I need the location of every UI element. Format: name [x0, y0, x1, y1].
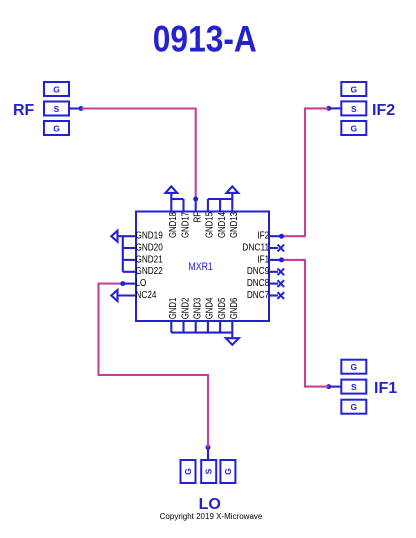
wire RF pad stub [69, 107, 81, 109]
wire DNC11 pin stub [269, 247, 278, 249]
wire GND20 pin stub [123, 247, 136, 249]
no-connect X DNC9 [278, 268, 285, 275]
svg-text:DNC8: DNC8 [247, 278, 270, 289]
svg-text:GND6: GND6 [229, 297, 240, 319]
pad G3 [341, 121, 366, 135]
pad S2 LO [201, 460, 216, 483]
port RF pads G-S-G [44, 82, 69, 135]
wire DNC9 pin stub [269, 271, 278, 273]
svg-text:G: G [53, 84, 60, 94]
svg-text:GND3: GND3 [193, 297, 204, 319]
svg-text:GND15: GND15 [205, 212, 216, 238]
svg-text:GND21: GND21 [136, 254, 164, 265]
wire LO pad stub [207, 447, 209, 460]
svg-text:G: G [350, 402, 357, 412]
wire GND21 pin stub [123, 259, 136, 261]
ground arrow bottom [226, 338, 239, 345]
wire bottom GND bus [171, 332, 232, 334]
svg-text:GND17: GND17 [180, 212, 191, 238]
port IF2 pads G-S-G [341, 82, 366, 135]
wire IF1 pin stub [269, 259, 282, 261]
wire IF2 net [282, 108, 329, 236]
port IF1 pads G-S-G [341, 360, 366, 414]
wire to bottom arrow [231, 333, 233, 339]
svg-text:GND14: GND14 [217, 212, 228, 238]
wire RF net [81, 109, 196, 200]
wire GND1 pin stub [170, 321, 172, 333]
pad S2 [341, 380, 366, 394]
port LO pads G-S-G [181, 460, 236, 483]
svg-text:DNC9: DNC9 [247, 266, 270, 277]
svg-text:MXR1: MXR1 [188, 261, 212, 273]
svg-text:IF1: IF1 [257, 254, 269, 265]
svg-text:Copyright 2019 X-Microwave: Copyright 2019 X-Microwave [160, 512, 263, 521]
svg-text:S: S [54, 104, 60, 114]
wire LO pin stub [123, 283, 136, 285]
junction IF2 pin [279, 234, 284, 239]
wire LO net [99, 284, 209, 448]
mixer U MXR1 body [136, 212, 269, 322]
wire DNC7 pin stub [269, 294, 278, 296]
wire top-right GND bus [208, 198, 232, 200]
no-connect X DNC11 [278, 245, 285, 252]
junction IF1 port [326, 384, 331, 389]
pad S2 [44, 102, 69, 116]
junction IF2 port [326, 106, 331, 111]
wire NC24 pin stub [118, 294, 137, 296]
wire RF pin stub [195, 199, 197, 212]
svg-text:LO: LO [199, 496, 221, 513]
wire IF2 pad stub [329, 107, 342, 109]
power arrow top-left [165, 186, 177, 193]
junction RF pin [193, 197, 198, 202]
svg-text:RF: RF [13, 102, 35, 119]
pad G1 [341, 82, 366, 96]
pad G3 LO [220, 460, 235, 483]
wire IF1 net [282, 260, 329, 387]
svg-text:GND13: GND13 [229, 212, 240, 238]
svg-text:DNC11: DNC11 [242, 242, 269, 253]
power arrow NC24 (left) [111, 290, 117, 301]
wire DNC8 pin stub [269, 283, 278, 285]
wire GND14 pin stub [219, 199, 221, 212]
wire GND17 pin stub [182, 199, 184, 212]
svg-text:G: G [53, 123, 60, 133]
wire IF1 pad stub [329, 386, 342, 388]
svg-text:G: G [350, 84, 357, 94]
svg-text:IF1: IF1 [374, 380, 397, 397]
no-connect X DNC7 [278, 292, 285, 299]
power arrow GND19 (left) [111, 231, 117, 242]
svg-text:IF2: IF2 [372, 102, 395, 119]
junction LO port [206, 445, 211, 450]
svg-text:G: G [350, 362, 357, 372]
svg-text:LO: LO [136, 278, 147, 289]
svg-text:NC24: NC24 [136, 290, 157, 301]
svg-text:S: S [351, 382, 357, 392]
wire GND5 pin stub [219, 321, 221, 333]
wire GND6 pin stub [231, 321, 233, 333]
wire GND4 pin stub [207, 321, 209, 333]
no-connect X DNC8 [278, 280, 285, 287]
wire to top-left arrow [170, 193, 172, 199]
svg-text:GND18: GND18 [168, 212, 179, 238]
wire GND19 pin stub [118, 235, 137, 237]
wire GND22 pin stub [123, 271, 136, 273]
svg-text:IF2: IF2 [257, 231, 269, 242]
svg-text:GND4: GND4 [205, 297, 216, 319]
svg-text:GND22: GND22 [136, 266, 164, 277]
pad G3 [341, 400, 366, 414]
svg-text:S: S [204, 468, 214, 474]
junction LO pin [120, 281, 125, 286]
svg-text:GND2: GND2 [180, 297, 191, 319]
svg-text:G: G [223, 468, 233, 475]
wire GND2 pin stub [182, 321, 184, 333]
wire to top-right arrow [231, 193, 233, 199]
wire GND18 pin stub [170, 199, 172, 212]
wire GND15 pin stub [207, 199, 209, 212]
svg-text:G: G [350, 123, 357, 133]
pad G3 [44, 121, 69, 135]
wire IF2 pin stub [269, 235, 282, 237]
junction IF1 pin [279, 257, 284, 262]
junction RF port [79, 106, 84, 111]
svg-text:GND5: GND5 [217, 297, 228, 319]
wire GND13 pin stub [231, 199, 233, 212]
svg-text:0913-A: 0913-A [153, 18, 257, 59]
svg-text:DNC7: DNC7 [247, 290, 270, 301]
pad S2 [341, 101, 366, 115]
wire GND3 pin stub [195, 321, 197, 333]
wire left GND bus [122, 236, 124, 272]
power arrow top-right [226, 186, 238, 193]
wire top-left GND bus [171, 198, 183, 200]
pad G1 [341, 360, 366, 374]
pad G1 [44, 82, 69, 96]
svg-text:G: G [183, 468, 193, 475]
svg-text:S: S [351, 104, 357, 114]
svg-text:RF: RF [193, 212, 204, 222]
pad G1 LO [181, 460, 196, 483]
svg-text:GND20: GND20 [136, 242, 164, 253]
svg-text:GND1: GND1 [168, 297, 179, 319]
svg-text:GND19: GND19 [136, 231, 164, 242]
